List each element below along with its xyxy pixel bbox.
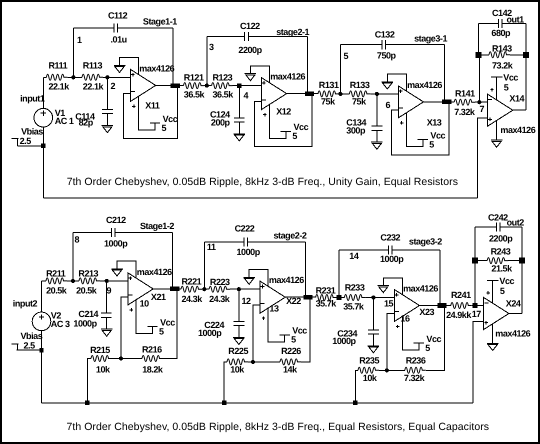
svg-text:C212: C212 xyxy=(106,215,126,225)
wire xyxy=(172,233,174,289)
wire xyxy=(474,227,476,261)
X21 Vcc symbol xyxy=(147,326,157,328)
wire xyxy=(204,241,244,243)
wire xyxy=(377,93,398,95)
X11 V+ pin wire xyxy=(139,96,156,130)
wire xyxy=(305,242,307,297)
svg-text:1000p: 1000p xyxy=(332,336,356,346)
wire xyxy=(392,249,440,251)
resistor R111 xyxy=(46,74,67,80)
X14 V+ supply + label xyxy=(490,89,493,91)
wire xyxy=(107,280,128,282)
svg-text:stage2-2: stage2-2 xyxy=(274,231,307,241)
wire xyxy=(475,226,496,228)
svg-text:X12: X12 xyxy=(276,107,291,117)
resistor R231 xyxy=(316,295,337,301)
wire X23 feedback xyxy=(426,306,445,371)
svg-text:R143: R143 xyxy=(492,44,512,54)
svg-text:R216: R216 xyxy=(142,345,162,355)
wire xyxy=(339,93,340,95)
wire xyxy=(67,76,73,78)
node R143 right junction xyxy=(523,52,529,58)
X21 V- ground xyxy=(111,268,123,270)
wire xyxy=(525,23,527,110)
wire xyxy=(239,288,260,290)
resistor R143 xyxy=(489,52,510,58)
svg-text:2.5: 2.5 xyxy=(20,136,32,146)
svg-text:75k: 75k xyxy=(321,97,336,107)
svg-text:R221: R221 xyxy=(182,277,202,287)
svg-text:R243: R243 xyxy=(491,247,511,257)
wire xyxy=(238,86,240,118)
wire xyxy=(339,297,345,299)
svg-text:R236: R236 xyxy=(406,356,426,366)
wire X22 output xyxy=(285,296,315,298)
wire xyxy=(233,85,240,87)
wire xyxy=(205,85,207,87)
svg-text:35.7k: 35.7k xyxy=(316,299,338,309)
wire xyxy=(474,261,476,306)
node X21 output junction xyxy=(170,287,175,292)
svg-text:24.3k: 24.3k xyxy=(209,294,231,304)
node X11 output junction xyxy=(171,83,176,88)
X14 V- ground xyxy=(491,139,503,141)
svg-text:input2: input2 xyxy=(13,299,38,309)
resistor R243 xyxy=(487,258,508,264)
node rail junction xyxy=(85,401,89,405)
X21 V+ pin wire xyxy=(136,300,153,334)
svg-text:Stage1-2: Stage1-2 xyxy=(140,221,174,231)
svg-text:1: 1 xyxy=(77,35,82,45)
wire X23 output xyxy=(420,305,451,307)
resistor R213 xyxy=(79,278,100,284)
svg-text:R131: R131 xyxy=(319,80,339,90)
X24 Vcc symbol xyxy=(487,280,499,282)
wire xyxy=(224,362,227,403)
resistor R131 xyxy=(318,91,339,97)
op-amp X21 xyxy=(128,273,153,305)
capacitor C214 xyxy=(101,312,112,314)
capacitor C122 xyxy=(244,32,246,41)
voltage source V1 xyxy=(34,108,53,127)
wire xyxy=(73,76,82,78)
wire xyxy=(502,22,526,24)
X13 V+ supply + label xyxy=(400,122,403,124)
op-amp X23 xyxy=(394,290,419,322)
svg-text:R225: R225 xyxy=(228,346,248,356)
wire X11 feedback xyxy=(124,86,178,139)
svg-text:22.1k: 22.1k xyxy=(83,82,105,92)
wire X13 output xyxy=(424,101,455,103)
svg-text:1000p: 1000p xyxy=(380,254,404,264)
wire X22 feedback xyxy=(301,297,310,362)
resistor R233 xyxy=(344,295,365,301)
svg-text:36.5k: 36.5k xyxy=(213,90,235,100)
svg-text:Stage1-1: Stage1-1 xyxy=(143,16,177,26)
X21 V+ supply + label xyxy=(130,309,133,311)
wire X21 feedback xyxy=(163,289,177,359)
X13 noninverting input + xyxy=(399,90,403,92)
svg-text:7th Order Chebyshev, 0.05dB Ri: 7th Order Chebyshev, 0.05dB Ripple, 8kHz… xyxy=(67,421,490,433)
wire xyxy=(43,76,46,78)
X21 V- pin wire xyxy=(117,261,136,278)
wire xyxy=(355,370,358,403)
capacitor C242 xyxy=(495,222,497,231)
node Vbias junction xyxy=(41,144,45,148)
svg-text:stage2-1: stage2-1 xyxy=(276,27,309,37)
svg-text:12: 12 xyxy=(242,296,252,306)
svg-text:7.32k: 7.32k xyxy=(404,373,426,383)
wire xyxy=(67,280,73,282)
svg-text:14k: 14k xyxy=(283,364,298,374)
ground xyxy=(371,141,383,143)
wire xyxy=(42,280,47,282)
svg-text:9: 9 xyxy=(107,286,112,296)
op-amp X22 xyxy=(260,281,285,313)
svg-text:300p: 300p xyxy=(346,126,366,136)
op-amp X13 xyxy=(398,86,423,118)
resistor R241 xyxy=(451,303,472,309)
X21 inverting input - xyxy=(129,294,133,296)
svg-text:5: 5 xyxy=(292,131,297,141)
wire xyxy=(478,55,480,102)
resistor R123 xyxy=(212,83,233,89)
wire xyxy=(510,54,526,56)
svg-text:C222: C222 xyxy=(235,224,255,234)
svg-text:2: 2 xyxy=(111,81,116,91)
svg-text:24.3k: 24.3k xyxy=(182,294,204,304)
wire X12 output xyxy=(287,93,318,95)
wire xyxy=(379,369,387,371)
node R215/R216 junction xyxy=(119,356,123,360)
Vbias symbol xyxy=(11,343,18,345)
X12 V+ supply + label xyxy=(263,114,266,116)
wire xyxy=(238,326,240,338)
svg-text:5: 5 xyxy=(291,335,296,345)
X24 V- ground xyxy=(487,343,499,345)
resistor R141 xyxy=(454,99,475,105)
svg-text:5: 5 xyxy=(425,343,430,353)
wire xyxy=(372,298,374,330)
svg-text:X23: X23 xyxy=(419,307,434,317)
X22 Vcc symbol xyxy=(279,334,289,336)
wire xyxy=(17,145,43,147)
wire X22 - input to gain net xyxy=(253,305,260,362)
wire xyxy=(72,233,74,281)
capacitor C234 xyxy=(368,329,379,331)
svg-text:20.5k: 20.5k xyxy=(46,285,68,295)
X13 V+ pin wire xyxy=(406,113,423,147)
resistor R236 xyxy=(405,367,426,373)
X11 Vcc symbol xyxy=(150,122,160,124)
wire xyxy=(339,45,341,94)
svg-text:C132: C132 xyxy=(375,29,395,39)
X22 noninverting input + xyxy=(261,286,265,288)
node R243 right junction xyxy=(519,258,525,264)
X11 V- pin wire xyxy=(120,58,139,75)
node 4 junction xyxy=(237,83,241,87)
svg-text:7.32k: 7.32k xyxy=(454,107,476,117)
resistor R211 xyxy=(46,278,67,284)
X24 noninverting input + xyxy=(484,322,488,324)
wire X23 - input to gain net xyxy=(387,314,395,371)
ground xyxy=(101,328,113,330)
wire xyxy=(112,358,121,360)
node 15 junction xyxy=(371,295,375,299)
svg-text:5: 5 xyxy=(500,286,505,296)
X22 V+ supply + label xyxy=(262,317,265,319)
svg-text:R215: R215 xyxy=(90,345,110,355)
capacitor C222 xyxy=(243,237,245,246)
svg-text:max4126: max4126 xyxy=(403,284,438,294)
wire xyxy=(479,54,490,56)
wire xyxy=(479,22,499,24)
svg-text:2.5: 2.5 xyxy=(24,341,36,351)
X11 noninverting input + xyxy=(131,74,135,76)
wire xyxy=(106,281,108,313)
wire xyxy=(72,28,74,77)
wire xyxy=(73,232,111,234)
capacitor C212 xyxy=(110,228,112,237)
wire xyxy=(248,361,253,363)
capacitor C224 xyxy=(234,321,245,323)
X11 V+ supply + label xyxy=(132,105,135,107)
svg-text:stage3-2: stage3-2 xyxy=(409,236,442,246)
resistor R215 xyxy=(91,356,112,362)
X24 V+ pin wire xyxy=(492,281,494,304)
ground xyxy=(233,337,245,339)
wire xyxy=(479,101,487,103)
resistor R235 xyxy=(358,367,379,373)
svg-text:max4126: max4126 xyxy=(270,72,305,82)
svg-text:X24: X24 xyxy=(506,299,521,309)
resistor R113 xyxy=(82,74,103,80)
svg-text:R211: R211 xyxy=(46,268,66,278)
svg-text:680p: 680p xyxy=(491,28,511,38)
wire X13 feedback xyxy=(391,102,449,155)
wire bottom bias rail xyxy=(42,402,474,404)
svg-text:18.2k: 18.2k xyxy=(142,364,164,374)
svg-text:R121: R121 xyxy=(184,73,204,83)
wire xyxy=(42,77,44,108)
X14 Vcc symbol xyxy=(491,76,503,78)
node 14 junction xyxy=(336,295,341,300)
wire xyxy=(337,297,339,299)
X22 V- ground xyxy=(243,276,255,278)
wire xyxy=(472,305,475,307)
svg-text:max4126: max4126 xyxy=(137,267,172,277)
svg-text:7: 7 xyxy=(480,104,485,114)
capacitor C124 xyxy=(234,117,245,119)
wire X24 output xyxy=(509,313,522,315)
svg-text:AC 3: AC 3 xyxy=(51,319,70,329)
wire X14 + input bias xyxy=(477,118,487,198)
wire xyxy=(500,226,522,228)
X11 inverting input - xyxy=(131,91,135,93)
ground xyxy=(102,125,114,127)
wire xyxy=(106,77,108,109)
node 2 junction xyxy=(105,75,109,79)
resistor R226 xyxy=(280,359,301,365)
wire xyxy=(73,280,79,282)
svg-text:out2: out2 xyxy=(507,218,525,228)
X24 V+ supply + label xyxy=(486,292,489,294)
wire xyxy=(230,288,239,290)
wire X24 + input bias xyxy=(473,322,484,403)
node 8 junction xyxy=(71,279,75,283)
wire xyxy=(118,27,174,29)
svg-text:10k: 10k xyxy=(96,365,111,375)
svg-text:max4126: max4126 xyxy=(500,125,535,135)
wire xyxy=(16,349,41,351)
wire xyxy=(365,297,373,299)
svg-text:C242: C242 xyxy=(488,213,508,223)
node R143 left junction xyxy=(476,52,482,58)
wire xyxy=(386,44,445,46)
X23 inverting input - xyxy=(395,311,399,313)
svg-text:36.5k: 36.5k xyxy=(184,90,206,100)
X12 V- pin wire xyxy=(250,66,269,83)
wire xyxy=(41,331,43,350)
svg-text:17: 17 xyxy=(472,309,482,319)
svg-text:R241: R241 xyxy=(451,290,471,300)
X24 inverting input - xyxy=(484,302,488,304)
node 17 junction xyxy=(473,303,478,308)
resistor R225 xyxy=(227,359,248,365)
svg-text:R133: R133 xyxy=(350,80,370,90)
resistor R223 xyxy=(209,286,230,292)
svg-text:750p: 750p xyxy=(377,51,397,61)
resistor R221 xyxy=(181,286,202,292)
wire xyxy=(338,250,340,297)
svg-text:R223: R223 xyxy=(210,277,230,287)
X11 V- ground xyxy=(114,65,126,67)
svg-text:1000p: 1000p xyxy=(104,239,128,249)
op-amp X14 xyxy=(488,94,513,126)
wire xyxy=(521,227,523,314)
svg-text:Vcc: Vcc xyxy=(503,73,518,83)
svg-text:2200p: 2200p xyxy=(489,234,513,244)
capacitor C232 xyxy=(387,246,389,255)
X23 V- ground xyxy=(378,285,390,287)
Vbias symbol xyxy=(11,138,18,140)
svg-text:5: 5 xyxy=(344,51,349,61)
ground xyxy=(368,345,380,347)
svg-text:20.5k: 20.5k xyxy=(76,285,98,295)
X13 Vcc symbol xyxy=(418,139,428,141)
svg-text:3: 3 xyxy=(209,42,214,52)
wire xyxy=(239,85,261,87)
capacitor C114 xyxy=(102,109,113,111)
svg-text:max4126: max4126 xyxy=(139,63,174,73)
node 3 junction xyxy=(205,84,209,88)
wire xyxy=(207,85,212,87)
wire xyxy=(340,44,382,46)
svg-text:C232: C232 xyxy=(380,233,400,243)
node X23 output junction xyxy=(438,303,443,308)
op-amp X11 xyxy=(131,69,156,101)
wire xyxy=(203,242,205,289)
wire xyxy=(42,127,44,146)
wire xyxy=(107,76,130,78)
svg-text:75k: 75k xyxy=(352,97,367,107)
svg-text:R235: R235 xyxy=(359,356,379,366)
node rail junction 3 xyxy=(353,401,357,405)
node R225/R226 junction xyxy=(251,360,255,364)
wire xyxy=(115,232,173,234)
svg-text:C122: C122 xyxy=(240,21,260,31)
node 6 junction xyxy=(375,92,379,96)
svg-text:4: 4 xyxy=(244,91,249,101)
svg-text:5: 5 xyxy=(429,139,434,149)
X13 V- pin wire xyxy=(387,74,406,91)
svg-text:out1: out1 xyxy=(507,14,525,24)
svg-text:R213: R213 xyxy=(78,268,98,278)
svg-text:AC 1: AC 1 xyxy=(55,116,74,126)
svg-text:14: 14 xyxy=(349,251,359,261)
node X13 output junction xyxy=(442,100,447,105)
svg-text:.01u: .01u xyxy=(111,35,127,45)
X23 noninverting input + xyxy=(395,294,399,296)
wire xyxy=(376,130,378,142)
svg-text:Vbias: Vbias xyxy=(21,331,43,341)
X21 noninverting input + xyxy=(129,277,133,279)
node 12 junction xyxy=(237,287,241,291)
svg-text:13: 13 xyxy=(269,304,279,314)
wire xyxy=(443,45,445,102)
wire xyxy=(248,35,307,37)
svg-text:35.7k: 35.7k xyxy=(343,301,365,311)
svg-text:R226: R226 xyxy=(281,346,301,356)
svg-text:1000p: 1000p xyxy=(237,247,261,257)
node rail junction 2 xyxy=(222,401,226,405)
wire xyxy=(202,288,204,290)
svg-text:11: 11 xyxy=(207,242,216,252)
svg-text:X13: X13 xyxy=(427,118,442,128)
X14 inverting input - xyxy=(488,99,492,101)
resistor R121 xyxy=(184,83,205,89)
voltage source V2 xyxy=(32,312,51,331)
wire xyxy=(376,94,378,126)
svg-text:24.9kk: 24.9kk xyxy=(446,310,472,320)
svg-text:1000p: 1000p xyxy=(73,318,97,328)
capacitor C134 xyxy=(372,125,383,127)
svg-text:X14: X14 xyxy=(509,94,524,104)
svg-text:82p: 82p xyxy=(79,118,94,128)
ground xyxy=(234,133,246,135)
wire X11 output xyxy=(156,85,184,87)
X23 V- pin wire xyxy=(383,278,402,295)
svg-text:7th Order Chebyshev, 0.05dB Ri: 7th Order Chebyshev, 0.05dB Ripple, 8kHz… xyxy=(67,176,458,188)
wire xyxy=(41,350,43,403)
svg-text:5: 5 xyxy=(504,83,509,93)
node R235/R236 junction xyxy=(385,368,389,372)
svg-text:max4126: max4126 xyxy=(495,328,530,338)
svg-text:21.5k: 21.5k xyxy=(491,264,513,274)
X12 Vcc symbol xyxy=(281,130,291,132)
wire xyxy=(339,249,389,251)
svg-text:Vbias: Vbias xyxy=(21,127,43,137)
wire xyxy=(439,250,441,305)
wire xyxy=(475,101,479,103)
X23 Vcc symbol xyxy=(414,342,424,344)
wire xyxy=(106,317,108,329)
capacitor C132 xyxy=(381,40,383,49)
node R243 left junction xyxy=(472,258,478,264)
wire xyxy=(106,114,108,126)
X24 V- pin wire xyxy=(492,324,494,344)
wire xyxy=(100,280,107,282)
